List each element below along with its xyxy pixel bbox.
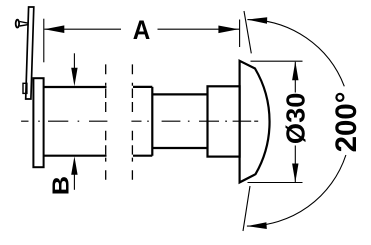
diameter dim line top xyxy=(294,62,296,93)
diameter arrowhead top xyxy=(292,61,298,80)
svg-text:B: B xyxy=(47,176,73,195)
dimension B arrow top xyxy=(73,53,75,72)
dimension B arrow bottom xyxy=(73,171,75,190)
tube segment 1 bottom edge xyxy=(44,155,107,157)
svg-text:200°: 200° xyxy=(330,91,363,152)
diameter arrowhead bottom xyxy=(292,164,298,183)
diameter extension line bottom xyxy=(248,182,303,184)
viewing angle arc upper xyxy=(247,20,344,87)
viewing angle arc lower xyxy=(247,155,346,226)
pivot pin stem top xyxy=(20,22,29,24)
cover plate (tilted swivel cover) xyxy=(26,7,34,99)
pivot pin head xyxy=(16,20,19,28)
collar xyxy=(208,86,240,156)
dimension A extension line left xyxy=(43,19,45,63)
flange xyxy=(33,78,43,167)
viewing angle ray top xyxy=(244,11,251,53)
viewing angle ray bottom xyxy=(243,186,250,231)
arc arrowhead top xyxy=(247,17,267,24)
tube segment 1 top edge xyxy=(44,86,107,88)
diameter dim line bottom xyxy=(294,146,296,183)
inner tube top edge xyxy=(152,93,207,95)
svg-text:Ø30: Ø30 xyxy=(281,93,311,145)
tube segment 2 top edge xyxy=(133,86,152,88)
diameter extension line top xyxy=(251,60,303,62)
tube end step edge xyxy=(151,87,153,156)
knob bump xyxy=(23,83,27,93)
break dashed line 2 xyxy=(131,64,133,179)
dimension A line right part xyxy=(158,28,240,30)
arc arrowhead bottom xyxy=(247,222,267,229)
dimension A arrowhead right xyxy=(218,26,238,34)
dimension A extension line right xyxy=(239,20,241,48)
centerline xyxy=(21,120,258,122)
svg-text:A: A xyxy=(133,15,151,45)
dimension A arrowhead left xyxy=(44,25,64,33)
break dashed line 1 xyxy=(105,64,107,179)
bell head xyxy=(240,61,270,183)
tube segment 2 bottom edge xyxy=(133,155,152,157)
inner tube bottom edge xyxy=(152,147,207,149)
dimension A line left part xyxy=(44,28,121,30)
pivot pin stem bottom xyxy=(20,25,29,26)
